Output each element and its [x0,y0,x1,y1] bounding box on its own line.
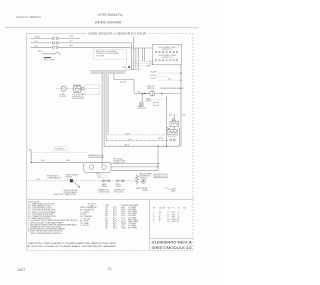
control board connector pins row 1 [155,51,178,53]
svg-text:BK 1.2 OHM: BK 1.2 OHM [44,60,55,62]
connector table right [153,207,187,223]
svg-text:A-7: A-7 [70,40,74,43]
broil element labels [116,184,122,188]
svg-text:STR L.20: STR L.20 [172,221,179,223]
svg-text:OR-18: OR-18 [121,228,126,230]
svg-text:COLOR: COLOR [159,208,166,210]
svg-text:316408400 REV:A: 316408400 REV:A [151,241,193,245]
legend notes column [28,201,79,235]
wire labels B-6 B-8 [169,114,185,116]
svg-text:CAUTION: DISCONNECT POWER BEFO: CAUTION: DISCONNECT POWER BEFORE SERVICI… [28,242,118,245]
terminal block caution text [88,154,105,159]
header model number [98,13,124,17]
svg-text:P1-1 BK: P1-1 BK [150,72,157,74]
bold node label [172,120,176,123]
svg-text:SWITCH: SWITCH [147,88,155,90]
wire labels on left branch [41,160,70,162]
connector junction block [123,66,141,70]
header rule [5,27,199,29]
relay K2 link symbols [166,128,170,130]
svg-text:NO: NO [183,208,186,210]
svg-text:W-1A: W-1A [35,36,41,39]
svg-text:CUISSON 240V: CUISSON 240V [98,191,111,193]
light switch S2 [73,181,80,188]
svg-text:Y: Y [159,221,161,223]
svg-text:OVEN LIGHT / LAMPE FOUR: OVEN LIGHT / LAMPE FOUR [53,193,76,196]
oven control board box U1 [152,44,181,64]
svg-text:P2-4 R: P2-4 R [150,78,156,80]
wire row 1 labels [35,36,75,39]
connector cluster verticals [131,43,138,70]
lamp labels [138,99,152,111]
relay K1 box [170,121,179,126]
switch legend mini column [88,203,97,211]
svg-text:DU FOUR: DU FOUR [138,108,147,110]
svg-text:P24: P24 [123,67,126,69]
svg-text:P12: P12 [98,176,101,178]
left branch label BK [29,149,32,151]
svg-text:B6: B6 [106,228,108,230]
svg-text:B-8: B-8 [182,114,185,116]
header title WIRING DIAGRAM [95,20,122,24]
anti-tip aux box [154,103,159,106]
wire label B-5 [168,79,171,81]
oven light bottom label [53,193,76,196]
svg-text:COMMUTATEUR: COMMUTATEUR [47,177,61,180]
svg-text:BK-21: BK-21 [158,138,163,140]
wire into anti-tip [134,92,181,94]
wire harness connector P24 strip [90,71,126,74]
svg-text:SWITCH: SWITCH [65,176,73,178]
control leads labels [150,72,157,80]
svg-text:A-10: A-10 [126,132,130,135]
svg-text:INSTRUCTIONS: INSTRUCTIONS [113,160,125,162]
svg-text:CONTROL P1: CONTROL P1 [161,49,172,51]
inline connector arrows [142,93,146,95]
lower element dashed run [28,180,137,182]
bus drop into block [101,162,103,165]
caution paragraph [28,242,118,248]
header publication number [16,15,41,19]
bake element labels [102,183,108,188]
legend separator line [27,198,193,200]
left junction node [30,162,31,163]
terminal block feed wires [111,146,158,170]
terminal block TB1 [84,162,111,174]
svg-text:2850W: 2850W [102,186,108,188]
wire row 2 [31,42,132,44]
svg-text:SHEET/MODULE:1/2: SHEET/MODULE:1/2 [151,246,192,250]
element lower labels [98,189,126,193]
feed junction dots [157,163,158,168]
title block sheet [151,246,192,250]
door lock box [154,174,167,178]
junction node [161,93,162,94]
svg-text:VERIFY OPERATION AFTER SERVICE: VERIFY OPERATION AFTER SERVICE [30,232,62,235]
relay K1 label [172,119,176,121]
cooling fan component box [74,85,81,92]
svg-text:LG: LG [178,208,181,210]
svg-text:BK: BK [29,149,32,151]
latch motor contacts [168,137,177,141]
probe receptacle J1 [141,179,145,183]
lead junction dots [180,72,181,80]
footer page number [108,267,112,271]
long run B-4 [106,139,168,141]
convection motor dashed feed [56,88,99,90]
wire label BK-21 [158,138,163,140]
svg-text:R-8: R-8 [137,92,140,94]
selector relay block [70,179,73,182]
svg-text:DOOR LOCK: DOOR LOCK [155,176,166,178]
schematic frame border [27,34,193,251]
dashed leader near lamp [146,93,162,100]
wire row 3 labels [35,44,74,47]
harness bus wires down [102,74,134,162]
svg-text:A-1 BK: A-1 BK [120,81,127,84]
junction dots on neutral [157,146,167,147]
wire row 3 [31,46,153,48]
motor labels [60,93,85,100]
svg-text:BK-2: BK-2 [38,51,43,53]
long run BK neutral [104,144,179,146]
svg-text:SEE INSTALL: SEE INSTALL [113,157,123,160]
convection motor M1 [61,86,66,91]
svg-text:SONDE: SONDE [142,190,149,192]
stack connecting stubs [174,114,179,146]
title block part number [151,241,193,245]
anti-tip labels [147,85,184,90]
leader to lamp label [164,187,176,192]
svg-text:A-2 BK: A-2 BK [149,60,155,63]
connector table mid [106,204,140,230]
svg-text:5: 5 [153,221,154,223]
svg-text:B-5: B-5 [168,79,171,81]
svg-text:GA: GA [167,207,170,210]
right bus vertical A [166,97,168,147]
svg-text:Publication No. 5995543413: Publication No. 5995543413 [16,15,41,19]
svg-text:ATTENTION: COUPER LE COURANT A: ATTENTION: COUPER LE COURANT AVANT L ENT… [28,245,118,248]
svg-text:BK-3: BK-3 [66,160,70,162]
title block divider vertical [149,199,151,250]
wire label A-1 [120,81,127,84]
wire label RED [137,92,140,94]
svg-text:WIRING DIAGRAM: WIRING DIAGRAM [95,20,122,24]
lower element row labels left [37,173,80,181]
wire color code column [80,207,97,227]
svg-text:B-6: B-6 [169,114,172,116]
relay K2 box [168,130,178,135]
broil element terminals [116,180,124,182]
svg-text:P#: P# [153,208,155,210]
footer date [17,268,25,272]
svg-text:CONTROL P2: CONTROL P2 [161,57,172,59]
left branch wire [31,151,83,163]
element labels right [139,172,152,179]
small terminal circle [81,87,84,90]
svg-text:W-5: W-5 [70,36,75,38]
dashed mini box [97,174,106,178]
svg-text:P3-3: P3-3 [113,228,117,230]
bake element terminals [102,180,110,182]
svg-text:A-6: A-6 [70,44,74,47]
door switch dashed label box [54,147,67,151]
svg-text:B-4: B-4 [129,139,132,141]
svg-text:V - VIOLET: V - VIOLET [80,225,90,227]
oven light switch labels [64,190,78,194]
anti-tip switch S1 [150,91,155,96]
terminal block notes right [113,157,125,164]
control board connector pins row 2 [155,59,178,61]
svg-text:P1-2 W: P1-2 W [150,75,156,77]
svg-text:PLAQUE A BORNES: PLAQUE A BORNES [88,156,105,159]
probe labels [136,187,149,192]
svg-text:OVEN SENSOR | | SENSOR DU FOUR: OVEN SENSOR | | SENSOR DU FOUR [88,32,146,36]
svg-text:CPEF3081KFA: CPEF3081KFA [98,13,124,17]
oven lamp L1 [139,102,143,106]
cluster leader labels [147,60,155,67]
drop to oven lamp [141,93,143,101]
dashed enclosure around fan [85,85,100,95]
svg-text:DOOR SW: DOOR SW [55,148,64,150]
svg-text:3/16 TERM: 3/16 TERM [128,228,137,230]
wire row 1 top-left [31,37,81,39]
dashed control leads [157,73,182,80]
wire row 2 labels [35,40,74,43]
svg-text:OF CONN: OF CONN [96,55,105,57]
wire drops from rows to connector cluster [134,37,145,62]
connector cluster leader dots [127,58,148,70]
svg-text:TY: TY [172,208,175,210]
svg-text:VENTILATEUR: VENTILATEUR [72,97,85,100]
long run A-10 dashed [108,132,168,135]
dashed notes box [93,49,127,59]
resistor R1 cluster [38,51,61,62]
vertical heating element E1 [135,174,138,184]
right bus vertical B [180,65,182,146]
svg-text:GRILL 240V: GRILL 240V [114,191,124,193]
svg-text:12/07: 12/07 [17,268,25,272]
svg-text:BK-1: BK-1 [41,160,45,162]
svg-text:BK-4: BK-4 [125,144,129,146]
svg-text:LIGHT: LIGHT [146,101,152,103]
sheet title OVEN SENSOR / SENSOR DU FOUR [88,32,146,36]
door switch dashed run [31,151,88,153]
svg-text:3600W: 3600W [116,186,122,188]
svg-text:16: 16 [167,221,169,223]
svg-text:10: 10 [108,267,112,271]
svg-text:MOTOR: MOTOR [60,96,67,98]
title block top line [150,237,193,239]
